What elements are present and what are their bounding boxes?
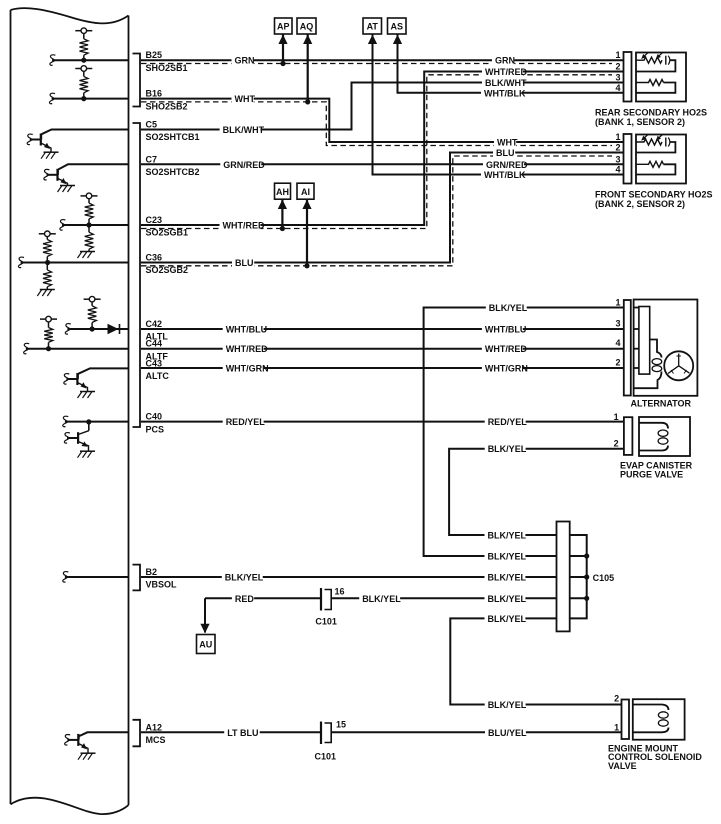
arrowhead to AH — [278, 200, 287, 210]
label BLK/YEL (C105 row 3) — [485, 571, 526, 583]
wire WHT/RED C23 to rear HO2S pin 2 — [141, 72, 624, 226]
wire RED/YEL C40 to EVAP valve pin 1 — [141, 421, 624, 423]
svg-text:BLU/YEL: BLU/YEL — [488, 728, 527, 738]
label WHT/RED (ECM side alternator) — [223, 343, 264, 355]
wire AH to WHT/RED shield — [281, 199, 283, 228]
svg-text:C36: C36 — [146, 253, 163, 263]
svg-text:SO2SGB2: SO2SGB2 — [146, 265, 189, 275]
wire BLU C36 to front HO2S pin 2 — [141, 153, 624, 263]
svg-text:PCS: PCS — [146, 424, 165, 434]
transistor SO2SHTCB1 driver emitter ground — [44, 151, 59, 153]
label BLK/YEL (C105 row 1) — [485, 529, 526, 541]
label WHT/RED (ECM side) — [220, 219, 261, 231]
label GRN/RED (sensor side) — [483, 158, 524, 170]
svg-text:WHT/RED: WHT/RED — [485, 344, 527, 354]
C105 junction bus — [570, 535, 587, 618]
rear secondary HO2S body — [636, 53, 686, 102]
transistor PCS driver — [88, 422, 90, 431]
ECM strip torn top edge — [11, 8, 129, 23]
resistor SO2SGB2 lower — [43, 270, 52, 287]
wire GRN/RED C7 to front HO2S pin 3 — [141, 163, 624, 165]
svg-text:GRN/RED: GRN/RED — [223, 160, 265, 170]
label BLK/YEL (after C101-16) — [359, 592, 400, 604]
label BLK/YEL (EVAP pin 2) — [485, 443, 526, 455]
label BLK/YEL (engine mount pin 2) — [485, 699, 526, 711]
alternator brush/regulator block — [639, 307, 650, 375]
transistor ALTC driver emitter ground — [80, 391, 95, 393]
svg-text:1: 1 — [615, 298, 620, 308]
svg-text:RED/YEL: RED/YEL — [226, 417, 266, 427]
connector ref box AI — [297, 183, 314, 199]
alternator stator/generator symbol — [664, 351, 693, 380]
svg-text:REAR SECONDARY HO2S: REAR SECONDARY HO2S — [595, 108, 707, 118]
rear secondary HO2S connector bar — [624, 52, 632, 102]
ground PCS emitter — [80, 450, 95, 452]
label GRN (sensor side) — [492, 54, 514, 66]
svg-text:BLK/YEL: BLK/YEL — [225, 573, 264, 583]
transistor SO2SHTCB2 driver base break — [44, 169, 50, 179]
wire WHT/BLK AS to rear HO2S pin 4 — [398, 35, 624, 93]
engine mount valve solenoid coil — [633, 705, 669, 711]
wire C5 internal — [42, 130, 129, 135]
svg-text:WHT: WHT — [235, 94, 256, 104]
svg-text:WHT: WHT — [497, 138, 518, 148]
shield dashed line for WHT — [141, 102, 612, 146]
connector ref box AS — [388, 18, 407, 34]
resistor SHO2SB1 pull-up — [80, 39, 89, 55]
svg-text:VBSOL: VBSOL — [146, 580, 178, 590]
alternator body — [634, 300, 698, 396]
svg-text:WHT/BLU: WHT/BLU — [226, 325, 268, 335]
wire C43 internal — [78, 368, 128, 373]
wire GRN B25 to rear HO2S pin 1 — [141, 59, 624, 61]
svg-text:GRN: GRN — [495, 56, 515, 66]
alternator pin 2 stub — [634, 367, 639, 369]
wire C42 internal — [67, 328, 128, 330]
resistor ALTF pull-up — [44, 328, 53, 343]
wire BLK/YEL EVAP valve pin 2 to C105 — [449, 449, 624, 535]
label BLU (ECM side) — [232, 257, 254, 269]
internal supply node for ALTF — [40, 318, 46, 320]
svg-text:BLK/WHT: BLK/WHT — [223, 125, 265, 135]
svg-text:4: 4 — [615, 83, 620, 93]
svg-text:WHT/GRN: WHT/GRN — [226, 364, 269, 374]
arrowhead to AQ — [303, 35, 312, 45]
ECM strip right edge — [128, 16, 130, 806]
svg-text:(BANK 2, SENSOR 2): (BANK 2, SENSOR 2) — [595, 199, 685, 209]
svg-text:FRONT SECONDARY HO2S: FRONT SECONDARY HO2S — [595, 190, 713, 200]
label BLK/YEL (alternator pin 1) — [486, 302, 527, 314]
wire AU drop — [204, 598, 206, 632]
wire AQ to WHT shield — [307, 35, 309, 102]
connector ref box AQ — [297, 18, 316, 34]
front secondary HO2S connector bar — [624, 134, 632, 184]
engine mount valve connector bar — [622, 700, 630, 740]
ECM strip left edge — [10, 10, 12, 804]
svg-text:WHT/RED: WHT/RED — [223, 221, 265, 231]
svg-text:4: 4 — [615, 338, 620, 348]
wire C23 internal — [62, 224, 129, 226]
svg-text:SHO2SB1: SHO2SB1 — [146, 63, 188, 73]
wire — [88, 219, 90, 225]
wire C40 internal — [65, 421, 129, 423]
EVAP valve body — [639, 417, 690, 456]
junction C105 bus — [584, 553, 589, 558]
svg-text:AH: AH — [276, 187, 289, 197]
break B16 internal wire — [49, 93, 55, 103]
junction on C42 wire — [90, 326, 95, 331]
transistor MCS driver — [77, 734, 79, 746]
arrowhead to AU — [200, 624, 209, 634]
resistor SHO2SB2 pull-up — [80, 76, 89, 92]
svg-text:WHT/BLK: WHT/BLK — [484, 170, 526, 180]
front secondary HO2S heater resistor (pins 3-4) — [636, 161, 664, 167]
engine mount valve body — [633, 699, 685, 740]
svg-text:BLK/YEL: BLK/YEL — [488, 552, 527, 562]
wire B25 internal — [52, 59, 129, 61]
internal supply node for SO2SGB2 — [39, 233, 45, 235]
svg-text:C42: C42 — [146, 319, 163, 329]
svg-text:B2: B2 — [146, 567, 158, 577]
svg-text:(BANK 1, SENSOR 2): (BANK 1, SENSOR 2) — [595, 117, 685, 127]
alternator pin 4 stub — [634, 348, 639, 350]
internal supply node for SHO2SB2 pull-up — [75, 68, 81, 70]
svg-text:ALTERNATOR: ALTERNATOR — [631, 399, 692, 409]
svg-text:SO2SGB1: SO2SGB1 — [146, 228, 189, 238]
wire — [83, 93, 85, 99]
svg-text:GRN: GRN — [235, 56, 255, 66]
label WHT/BLK (rear pin 4) — [481, 87, 522, 99]
svg-text:C5: C5 — [146, 120, 158, 130]
svg-text:BLK/YEL: BLK/YEL — [488, 614, 527, 624]
transistor SO2SHTCB1 driver — [40, 134, 42, 146]
label BLU (sensor side) — [493, 147, 515, 159]
junction on C36 wire — [45, 260, 50, 265]
junction AI on BLU shield — [304, 263, 309, 268]
front secondary HO2S body — [636, 135, 686, 184]
label GRN (ECM side) — [232, 54, 254, 66]
svg-text:BLK/YEL: BLK/YEL — [488, 531, 527, 541]
wire A12 internal — [78, 732, 128, 736]
svg-text:1: 1 — [614, 412, 619, 422]
svg-text:WHT/RED: WHT/RED — [226, 344, 268, 354]
ground SO2SGB1 divider — [80, 251, 95, 253]
label BLK/YEL (B2 side) — [222, 571, 263, 583]
EVAP valve connector bar — [624, 417, 633, 455]
svg-text:AP: AP — [277, 22, 290, 32]
svg-text:SO2SHTCB1: SO2SHTCB1 — [146, 132, 200, 142]
svg-text:A12: A12 — [146, 722, 163, 732]
svg-text:2: 2 — [614, 439, 619, 449]
resistor SO2SGB1 upper — [85, 203, 94, 219]
wire — [83, 34, 85, 39]
break C23 internal wire — [60, 220, 66, 230]
svg-text:BLU: BLU — [496, 148, 515, 158]
wire WHT/GRN C43 to alternator pin 2 — [141, 367, 624, 369]
transistor MCS driver base break — [65, 735, 71, 745]
arrowhead to AP — [278, 35, 287, 45]
wire BLK/YEL C101-16 to C105 — [331, 597, 556, 599]
signal-direction arrow on C42 wire — [108, 324, 119, 334]
svg-text:3: 3 — [615, 73, 620, 83]
internal supply node for SHO2SB1 pull-up — [75, 30, 81, 32]
label RED/YEL (ECM side) — [223, 416, 264, 428]
break C40 internal wire — [63, 416, 69, 426]
wire — [83, 71, 85, 76]
wire BLK/YEL C105 to engine mount valve pin 2 — [450, 618, 621, 704]
label RED/YEL (valve side) — [485, 416, 526, 428]
wire BLK/WHT C5 to rear HO2S pin 3 — [141, 83, 624, 130]
svg-text:C43: C43 — [146, 358, 163, 368]
wire BLK/YEL alternator pin 1 to C105 — [424, 308, 624, 557]
ground SO2SGB2 divider — [40, 289, 55, 291]
alternator connector bar — [624, 300, 631, 396]
svg-text:VALVE: VALVE — [608, 761, 637, 771]
wire LT BLU A12 to C101 pin 15 — [141, 731, 321, 733]
svg-text:4: 4 — [615, 165, 620, 175]
svg-text:ALTC: ALTC — [146, 371, 170, 381]
svg-text:BLK/YEL: BLK/YEL — [488, 700, 527, 710]
svg-text:C40: C40 — [146, 412, 163, 422]
svg-text:2: 2 — [614, 694, 619, 704]
junction on C44 wire — [46, 346, 51, 351]
svg-text:WHT/GRN: WHT/GRN — [485, 364, 528, 374]
svg-text:1: 1 — [614, 722, 619, 732]
junction on C40 wire — [86, 419, 91, 424]
svg-text:RED: RED — [235, 594, 255, 604]
wire — [48, 322, 50, 328]
svg-text:BLK/YEL: BLK/YEL — [488, 573, 527, 583]
svg-text:RED/YEL: RED/YEL — [488, 417, 528, 427]
svg-text:16: 16 — [335, 587, 345, 597]
C105 connector bar — [557, 522, 570, 632]
label WHT/BLU (ECM side) — [223, 323, 264, 335]
svg-text:C101: C101 — [315, 616, 337, 626]
svg-text:C23: C23 — [146, 215, 163, 225]
label RED — [232, 592, 254, 604]
wire — [88, 225, 90, 232]
label LT BLU — [224, 726, 260, 738]
ECM connector bracket pins B25/B16 — [133, 54, 141, 107]
shield dashed line for BLU — [141, 156, 612, 266]
wire WHT/BLU C42 to alternator pin 3 — [141, 328, 624, 330]
connector ref box AH — [275, 183, 291, 199]
wire — [46, 263, 48, 270]
break C42 internal wire — [65, 324, 71, 334]
junction on B25 wire — [81, 58, 86, 63]
svg-text:WHT/BLK: WHT/BLK — [484, 88, 526, 98]
svg-text:AQ: AQ — [300, 22, 314, 32]
svg-text:B25: B25 — [146, 50, 163, 60]
wire AP to GRN shield — [282, 35, 284, 64]
svg-text:3: 3 — [615, 319, 620, 329]
wire — [48, 342, 50, 348]
label BLK/YEL (C105 row 2) — [485, 550, 526, 562]
wire B16 internal — [52, 98, 129, 100]
alternator field coil — [650, 340, 662, 358]
internal supply node for ALTL — [84, 298, 90, 300]
transistor ALTC driver — [76, 373, 78, 385]
ECM connector bracket pin A12 — [133, 720, 141, 747]
svg-text:1: 1 — [615, 132, 620, 142]
svg-text:C105: C105 — [593, 573, 615, 583]
junction AH on WHT/RED shield — [280, 226, 285, 231]
transistor SO2SHTCB2 driver emitter ground — [60, 185, 75, 187]
arrowhead to AI — [302, 200, 311, 210]
alternator pin 1 stub — [634, 307, 639, 309]
break B25 internal wire — [50, 55, 56, 65]
label WHT/RED (alternator side) — [482, 343, 523, 355]
svg-text:MCS: MCS — [146, 735, 166, 745]
svg-text:BLK/YEL: BLK/YEL — [488, 594, 527, 604]
wire C36 internal — [21, 262, 129, 264]
ECM strip torn bottom edge — [11, 798, 129, 814]
svg-text:AI: AI — [301, 187, 310, 197]
connector ref box AU — [197, 635, 216, 654]
svg-text:BLK/WHT: BLK/WHT — [485, 78, 527, 88]
label WHT/GRN (alternator side) — [482, 362, 523, 374]
arrowhead to AT — [368, 35, 377, 45]
wire — [83, 55, 85, 60]
svg-text:BLK/YEL: BLK/YEL — [488, 444, 527, 454]
wire — [46, 257, 48, 263]
label WHT (ECM side) — [232, 93, 254, 105]
label BLK/YEL (C105 row 4) — [485, 592, 526, 604]
svg-text:3: 3 — [615, 154, 620, 164]
transistor MCS driver emitter ground — [81, 752, 96, 754]
svg-text:15: 15 — [336, 719, 346, 729]
label WHT/RED (sensor side) — [482, 66, 523, 78]
svg-text:2: 2 — [615, 143, 620, 153]
transistor PCS base break — [64, 433, 70, 443]
svg-text:WHT/BLU: WHT/BLU — [485, 325, 527, 335]
transistor SO2SHTCB2 driver — [56, 169, 58, 181]
wire — [88, 249, 90, 251]
svg-text:SHO2SB2: SHO2SB2 — [146, 101, 188, 111]
wire WHT/BLK AT to front HO2S pin 4 — [373, 35, 624, 175]
wire BLK/YEL B2 to C105 — [141, 576, 557, 578]
svg-text:WHT/RED: WHT/RED — [485, 67, 527, 77]
resistor SO2SGB1 lower — [85, 232, 94, 249]
front secondary HO2S sensing element (pins 1-2) — [636, 139, 662, 145]
svg-text:2: 2 — [615, 62, 620, 72]
label WHT/GRN (ECM side) — [223, 362, 264, 374]
label WHT (sensor side) — [494, 136, 516, 148]
transistor ALTC driver base break — [64, 374, 70, 384]
ECM connector bracket pins C5-C40 — [133, 123, 141, 427]
svg-text:BLU: BLU — [235, 258, 254, 268]
wire — [46, 287, 48, 290]
connector ref box AT — [363, 18, 382, 34]
rear secondary HO2S sensing element (pins 1-2) — [636, 57, 662, 63]
svg-text:PURGE VALVE: PURGE VALVE — [620, 470, 683, 480]
wire BLU/YEL C101-15 to engine mount valve pin 1 — [331, 731, 621, 733]
svg-text:C101: C101 — [315, 752, 337, 762]
label BLK/WHT (ECM side) — [220, 124, 261, 136]
junction C105 bus — [584, 596, 589, 601]
rear secondary HO2S heater resistor (pins 3-4) — [636, 80, 664, 86]
wire — [91, 302, 93, 306]
break B2 internal wire — [63, 572, 69, 582]
wire WHT B16 to front HO2S pin 1 — [141, 99, 624, 142]
junction on B16 wire — [81, 96, 86, 101]
transistor SO2SHTCB1 driver base break — [27, 134, 33, 144]
connector C101 pin 16 — [320, 588, 322, 611]
break C44 internal wire — [24, 343, 30, 353]
label WHT/BLU (alternator side) — [482, 323, 523, 335]
label GRN/RED (ECM side) — [220, 158, 261, 170]
shield dashed line for GRN — [141, 63, 612, 65]
junction AP on GRN shield — [280, 61, 285, 66]
wire — [91, 323, 93, 330]
svg-text:B16: B16 — [146, 89, 163, 99]
label BLK/YEL (C105 row 5) — [485, 612, 526, 624]
label BLU/YEL — [485, 726, 526, 738]
svg-text:C7: C7 — [146, 154, 158, 164]
svg-text:C44: C44 — [146, 339, 163, 349]
EVAP valve solenoid coil — [639, 423, 668, 429]
svg-text:AU: AU — [199, 640, 212, 650]
wire AI to BLU shield — [306, 199, 308, 265]
label WHT/BLK (front pin 4) — [481, 169, 522, 181]
break C36 internal wire — [18, 257, 24, 267]
wire — [88, 199, 90, 203]
svg-text:LT BLU: LT BLU — [227, 728, 258, 738]
internal supply node for SO2SGB1 — [81, 195, 87, 197]
ECM connector bracket pin B2 — [133, 565, 141, 591]
wire — [46, 237, 48, 240]
connector C101 pin 15 — [320, 722, 322, 745]
svg-text:1: 1 — [615, 50, 620, 60]
connector ref box AP — [275, 18, 293, 34]
svg-text:SO2SHTCB2: SO2SHTCB2 — [146, 167, 200, 177]
resistor SO2SGB2 upper — [43, 240, 52, 257]
label BLK/WHT (sensor side) — [482, 77, 523, 89]
svg-text:AS: AS — [390, 22, 403, 32]
alternator pin 3 stub — [634, 328, 639, 330]
shield dashed line for WHT/RED — [141, 75, 612, 229]
svg-text:AT: AT — [367, 22, 379, 32]
wire RED C101 to AU — [205, 597, 321, 599]
svg-text:GRN/RED: GRN/RED — [486, 160, 528, 170]
resistor ALTL pull-up — [88, 306, 97, 323]
wire B2 internal — [65, 576, 129, 578]
svg-text:BLK/YEL: BLK/YEL — [489, 303, 528, 313]
wire C44 internal — [26, 348, 129, 350]
arrowhead to AS — [393, 35, 402, 45]
junction C105 bus — [584, 574, 589, 579]
wire WHT/RED C44 to alternator pin 4 — [141, 348, 624, 350]
svg-text:BLK/YEL: BLK/YEL — [362, 594, 401, 604]
svg-text:2: 2 — [615, 358, 620, 368]
wire C7 internal — [58, 164, 128, 169]
junction AQ on WHT shield — [305, 99, 310, 104]
junction on C23 wire — [86, 222, 91, 227]
